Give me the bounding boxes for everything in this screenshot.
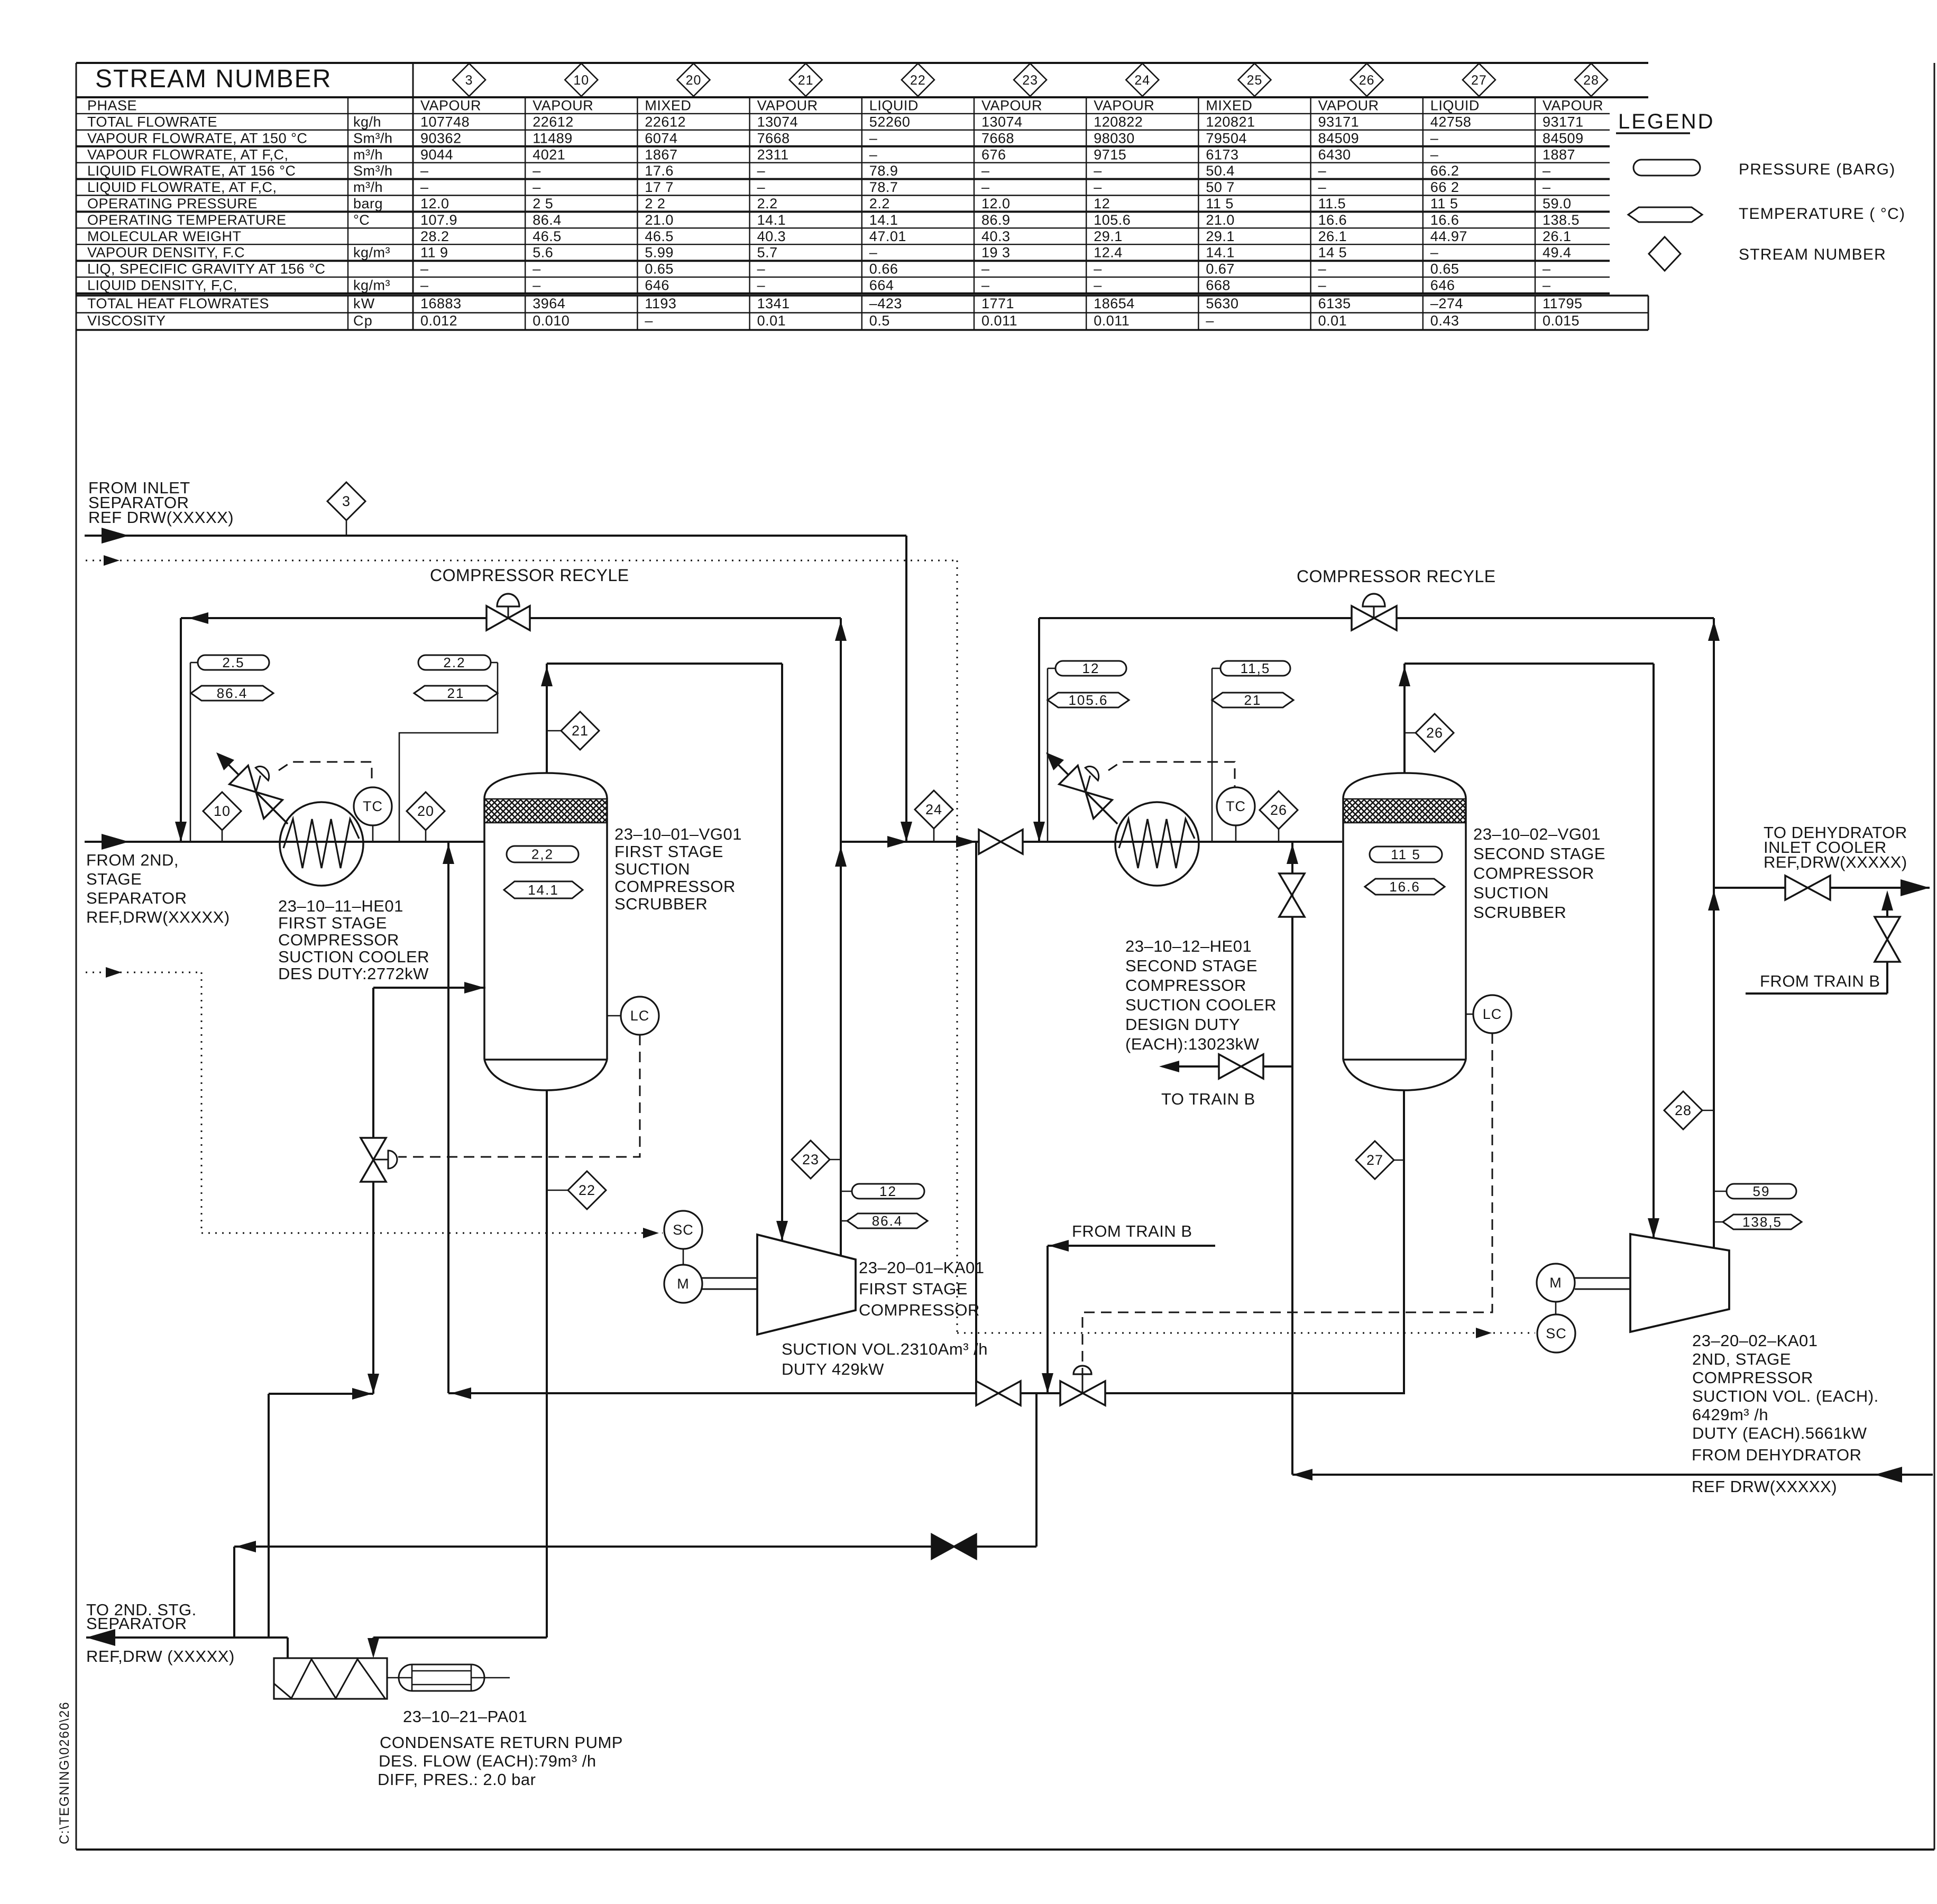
svg-text:SEPARATOR: SEPARATOR — [86, 1614, 187, 1633]
svg-text:0.010: 0.010 — [533, 313, 570, 329]
svg-text:646: 646 — [1430, 278, 1455, 293]
svg-text:TC: TC — [363, 798, 383, 814]
svg-text:–: – — [869, 146, 878, 162]
svg-text:SUCTION COOLER: SUCTION COOLER — [1125, 996, 1277, 1014]
svg-text:–: – — [1430, 245, 1439, 261]
svg-text:–: – — [757, 261, 766, 277]
svg-text:11,5: 11,5 — [1241, 660, 1271, 676]
svg-text:12.0: 12.0 — [981, 196, 1011, 211]
svg-text:20: 20 — [686, 73, 702, 88]
svg-text:16.6: 16.6 — [1389, 879, 1420, 895]
svg-text:DUTY (EACH).5661kW: DUTY (EACH).5661kW — [1692, 1424, 1867, 1442]
svg-text:98030: 98030 — [1094, 130, 1135, 146]
svg-text:22: 22 — [579, 1182, 595, 1198]
svg-text:59: 59 — [1753, 1183, 1770, 1199]
svg-text:–: – — [1543, 163, 1551, 179]
svg-text:3964: 3964 — [533, 296, 565, 311]
svg-text:kW: kW — [353, 296, 375, 311]
svg-text:66.2: 66.2 — [1430, 163, 1459, 179]
svg-text:2ND, STAGE: 2ND, STAGE — [1692, 1350, 1791, 1368]
svg-text:MIXED: MIXED — [645, 98, 691, 114]
svg-text:DUTY 429kW: DUTY 429kW — [782, 1360, 884, 1378]
svg-text:–: – — [981, 179, 990, 195]
svg-text:2 5: 2 5 — [533, 196, 553, 211]
svg-text:29.1: 29.1 — [1094, 228, 1123, 244]
svg-text:6173: 6173 — [1206, 146, 1238, 162]
svg-text:10: 10 — [573, 73, 589, 88]
svg-text:25: 25 — [1247, 73, 1263, 88]
svg-text:VAPOUR: VAPOUR — [1094, 98, 1154, 114]
svg-text:REF,DRW(XXXXX): REF,DRW(XXXXX) — [86, 908, 230, 926]
svg-text:0.5: 0.5 — [869, 313, 890, 329]
svg-text:SC: SC — [1546, 1326, 1567, 1341]
svg-text:–: – — [1318, 261, 1327, 277]
svg-text:TOTAL HEAT FLOWRATES: TOTAL HEAT FLOWRATES — [87, 296, 269, 311]
svg-text:SUCTION VOL.2310Am³ /h: SUCTION VOL.2310Am³ /h — [782, 1340, 988, 1358]
svg-text:–274: –274 — [1430, 296, 1463, 311]
svg-text:23–20–01–KA01: 23–20–01–KA01 — [859, 1258, 985, 1277]
svg-text:6429m³ /h: 6429m³ /h — [1692, 1405, 1768, 1424]
svg-text:SUCTION COOLER: SUCTION COOLER — [278, 948, 429, 966]
svg-text:–: – — [1543, 261, 1551, 277]
svg-text:CONDENSATE RETURN PUMP: CONDENSATE RETURN PUMP — [380, 1733, 623, 1752]
svg-text:SCRUBBER: SCRUBBER — [614, 895, 708, 913]
svg-text:26.1: 26.1 — [1543, 228, 1572, 244]
svg-text:24: 24 — [1134, 73, 1150, 88]
svg-text:TOTAL FLOWRATE: TOTAL FLOWRATE — [87, 114, 217, 130]
svg-text:TC: TC — [1226, 798, 1246, 814]
svg-text:21: 21 — [572, 723, 589, 739]
svg-text:46.5: 46.5 — [645, 228, 674, 244]
svg-text:MOLECULAR WEIGHT: MOLECULAR WEIGHT — [87, 228, 242, 244]
svg-text:0.65: 0.65 — [645, 261, 674, 277]
svg-text:M: M — [1549, 1275, 1562, 1291]
svg-text:TEMPERATURE ( °C): TEMPERATURE ( °C) — [1739, 205, 1905, 223]
svg-text:VAPOUR DENSITY, F.C: VAPOUR DENSITY, F.C — [87, 245, 245, 261]
svg-text:14.1: 14.1 — [869, 212, 898, 228]
svg-text:VAPOUR FLOWRATE, AT F,C,: VAPOUR FLOWRATE, AT F,C, — [87, 146, 289, 162]
svg-text:44.97: 44.97 — [1430, 228, 1467, 244]
svg-text:86.9: 86.9 — [981, 212, 1011, 228]
svg-text:–: – — [533, 163, 541, 179]
svg-text:–: – — [869, 245, 878, 261]
svg-text:barg: barg — [353, 196, 383, 211]
svg-text:21: 21 — [1244, 692, 1262, 708]
svg-text:21: 21 — [798, 73, 814, 88]
svg-text:79504: 79504 — [1206, 130, 1247, 146]
svg-text:14.1: 14.1 — [757, 212, 786, 228]
svg-text:90362: 90362 — [420, 130, 462, 146]
svg-text:FIRST STAGE: FIRST STAGE — [278, 914, 387, 932]
svg-text:–: – — [981, 278, 990, 293]
svg-text:COMPRESSOR: COMPRESSOR — [1692, 1368, 1813, 1387]
svg-text:93171: 93171 — [1543, 114, 1584, 130]
svg-text:OPERATING PRESSURE: OPERATING PRESSURE — [87, 196, 258, 211]
svg-text:2 2: 2 2 — [645, 196, 665, 211]
svg-text:7668: 7668 — [981, 130, 1014, 146]
svg-text:21.0: 21.0 — [1206, 212, 1235, 228]
svg-text:–423: –423 — [869, 296, 902, 311]
svg-text:OPERATING TEMPERATURE: OPERATING TEMPERATURE — [87, 212, 287, 228]
svg-text:Cp: Cp — [353, 313, 373, 329]
svg-text:kg/m³: kg/m³ — [353, 245, 390, 261]
svg-text:VAPOUR: VAPOUR — [1318, 98, 1379, 114]
svg-text:–: – — [1206, 313, 1214, 329]
svg-text:Sm³/h: Sm³/h — [353, 163, 393, 179]
svg-text:11.5: 11.5 — [1318, 196, 1346, 211]
svg-text:13074: 13074 — [757, 114, 798, 130]
svg-text:138,5: 138,5 — [1742, 1214, 1782, 1230]
svg-text:–: – — [869, 130, 878, 146]
svg-text:78.9: 78.9 — [869, 163, 898, 179]
svg-text:VAPOUR: VAPOUR — [533, 98, 593, 114]
svg-text:22612: 22612 — [645, 114, 686, 130]
svg-text:86.4: 86.4 — [533, 212, 562, 228]
svg-text:84509: 84509 — [1318, 130, 1360, 146]
svg-text:664: 664 — [869, 278, 894, 293]
svg-text:6430: 6430 — [1318, 146, 1351, 162]
svg-text:27: 27 — [1471, 73, 1487, 88]
svg-text:86.4: 86.4 — [872, 1213, 903, 1229]
svg-text:86.4: 86.4 — [217, 685, 248, 701]
svg-text:STAGE: STAGE — [86, 870, 142, 888]
svg-text:–: – — [1094, 261, 1102, 277]
svg-text:40.3: 40.3 — [757, 228, 786, 244]
svg-text:REF,DRW (XXXXX): REF,DRW (XXXXX) — [86, 1647, 235, 1666]
svg-text:14 5: 14 5 — [1318, 245, 1347, 261]
svg-text:107748: 107748 — [420, 114, 470, 130]
svg-text:2.5: 2.5 — [222, 655, 244, 670]
svg-text:VAPOUR: VAPOUR — [981, 98, 1042, 114]
svg-text:9715: 9715 — [1094, 146, 1126, 162]
svg-text:18654: 18654 — [1094, 296, 1135, 311]
svg-text:9044: 9044 — [420, 146, 453, 162]
svg-text:LIQUID FLOWRATE, AT 156 °C: LIQUID FLOWRATE, AT 156 °C — [87, 163, 296, 179]
svg-text:FROM 2ND,: FROM 2ND, — [86, 851, 179, 869]
svg-text:12.0: 12.0 — [420, 196, 449, 211]
svg-text:–: – — [533, 278, 541, 293]
svg-text:2.2: 2.2 — [757, 196, 778, 211]
svg-text:50 7: 50 7 — [1206, 179, 1235, 195]
svg-text:107.9: 107.9 — [420, 212, 457, 228]
svg-text:26.1: 26.1 — [1318, 228, 1347, 244]
svg-text:24: 24 — [925, 802, 942, 817]
svg-text:27: 27 — [1366, 1152, 1383, 1168]
svg-text:MIXED: MIXED — [1206, 98, 1252, 114]
svg-text:0.66: 0.66 — [869, 261, 898, 277]
svg-text:–: – — [1543, 179, 1551, 195]
svg-text:23–10–01–VG01: 23–10–01–VG01 — [614, 825, 742, 843]
svg-text:DIFF, PRES.: 2.0 bar: DIFF, PRES.: 2.0 bar — [378, 1770, 536, 1789]
svg-text:138.5: 138.5 — [1543, 212, 1580, 228]
svg-text:17 7: 17 7 — [645, 179, 674, 195]
svg-text:26: 26 — [1426, 725, 1443, 741]
svg-text:0.01: 0.01 — [1318, 313, 1347, 329]
svg-text:–: – — [757, 179, 766, 195]
svg-text:22612: 22612 — [533, 114, 574, 130]
svg-text:40.3: 40.3 — [981, 228, 1011, 244]
svg-text:SECOND STAGE: SECOND STAGE — [1125, 956, 1257, 975]
svg-text:120822: 120822 — [1094, 114, 1143, 130]
svg-text:DES. FLOW (EACH):79m³ /h: DES. FLOW (EACH):79m³ /h — [379, 1752, 596, 1770]
svg-text:m³/h: m³/h — [353, 179, 383, 195]
svg-text:LIQUID: LIQUID — [1430, 98, 1480, 114]
svg-text:3: 3 — [342, 493, 351, 509]
svg-text:49.4: 49.4 — [1543, 245, 1572, 261]
svg-text:(EACH):13023kW: (EACH):13023kW — [1125, 1035, 1260, 1053]
svg-text:VISCOSITY: VISCOSITY — [87, 313, 166, 329]
svg-text:Sm³/h: Sm³/h — [353, 130, 393, 146]
svg-text:VAPOUR: VAPOUR — [1543, 98, 1603, 114]
svg-text:2311: 2311 — [757, 146, 789, 162]
svg-text:–: – — [420, 278, 429, 293]
svg-text:–: – — [420, 179, 429, 195]
svg-text:105.6: 105.6 — [1068, 692, 1108, 708]
svg-text:12: 12 — [879, 1183, 897, 1199]
svg-text:23–10–02–VG01: 23–10–02–VG01 — [1473, 825, 1601, 843]
svg-text:PHASE: PHASE — [87, 98, 137, 114]
svg-text:–: – — [757, 163, 766, 179]
svg-text:FROM DEHYDRATOR: FROM DEHYDRATOR — [1692, 1446, 1862, 1464]
svg-text:0.012: 0.012 — [420, 313, 457, 329]
svg-text:6074: 6074 — [645, 130, 677, 146]
svg-text:VAPOUR: VAPOUR — [420, 98, 481, 114]
svg-text:11 9: 11 9 — [420, 245, 448, 261]
svg-text:0.67: 0.67 — [1206, 261, 1235, 277]
svg-text:C:\TEGNING\0260\26: C:\TEGNING\0260\26 — [57, 1701, 72, 1844]
svg-text:COMPRESSOR: COMPRESSOR — [1125, 976, 1246, 995]
svg-text:COMPRESSOR RECYLE: COMPRESSOR RECYLE — [430, 566, 629, 585]
svg-text:2.2: 2.2 — [869, 196, 890, 211]
svg-text:29.1: 29.1 — [1206, 228, 1235, 244]
svg-text:–: – — [1318, 179, 1327, 195]
svg-text:–: – — [533, 179, 541, 195]
svg-text:19 3: 19 3 — [981, 245, 1011, 261]
svg-text:–: – — [981, 163, 990, 179]
svg-text:23: 23 — [802, 1152, 819, 1167]
svg-text:–: – — [757, 278, 766, 293]
svg-text:5.99: 5.99 — [645, 245, 674, 261]
svg-text:105.6: 105.6 — [1094, 212, 1131, 228]
svg-text:0.011: 0.011 — [981, 313, 1017, 329]
svg-text:REF DRW(XXXXX): REF DRW(XXXXX) — [1692, 1477, 1837, 1496]
svg-text:59.0: 59.0 — [1543, 196, 1572, 211]
svg-text:50.4: 50.4 — [1206, 163, 1235, 179]
svg-text:LIQUID: LIQUID — [869, 98, 919, 114]
svg-text:COMPRESSOR: COMPRESSOR — [278, 931, 399, 949]
svg-text:–: – — [1094, 179, 1102, 195]
svg-text:VAPOUR FLOWRATE, AT 150 °C: VAPOUR FLOWRATE, AT 150 °C — [87, 130, 307, 146]
svg-text:–: – — [1543, 278, 1551, 293]
svg-text:14.1: 14.1 — [528, 882, 559, 898]
svg-text:0.43: 0.43 — [1430, 313, 1459, 329]
svg-text:5.6: 5.6 — [533, 245, 553, 261]
svg-text:21.0: 21.0 — [645, 212, 674, 228]
svg-text:0.65: 0.65 — [1430, 261, 1459, 277]
svg-text:2,2: 2,2 — [531, 847, 554, 862]
svg-text:kg/h: kg/h — [353, 114, 381, 130]
svg-text:11 5: 11 5 — [1206, 196, 1234, 211]
svg-text:23–10–11–HE01: 23–10–11–HE01 — [278, 897, 403, 915]
svg-text:–: – — [645, 313, 653, 329]
svg-text:–: – — [1094, 163, 1102, 179]
svg-text:1193: 1193 — [645, 296, 676, 311]
svg-text:–: – — [533, 261, 541, 277]
svg-text:3: 3 — [465, 73, 473, 88]
svg-text:kg/m³: kg/m³ — [353, 278, 390, 293]
svg-text:1341: 1341 — [757, 296, 790, 311]
svg-text:17.6: 17.6 — [645, 163, 674, 179]
svg-text:2.2: 2.2 — [443, 655, 465, 670]
svg-text:668: 668 — [1206, 278, 1231, 293]
svg-text:28: 28 — [1675, 1102, 1692, 1118]
svg-text:°C: °C — [353, 212, 370, 228]
svg-text:12: 12 — [1082, 660, 1100, 676]
svg-text:5630: 5630 — [1206, 296, 1238, 311]
svg-text:TO TRAIN B: TO TRAIN B — [1161, 1090, 1255, 1108]
svg-text:–: – — [981, 261, 990, 277]
svg-text:DESIGN DUTY: DESIGN DUTY — [1125, 1015, 1240, 1034]
svg-text:23: 23 — [1022, 73, 1038, 88]
svg-text:FIRST STAGE: FIRST STAGE — [614, 842, 723, 861]
svg-text:REF DRW(XXXXX): REF DRW(XXXXX) — [88, 508, 234, 527]
svg-text:LC: LC — [1483, 1006, 1502, 1022]
svg-text:28: 28 — [1583, 73, 1599, 88]
svg-text:1887: 1887 — [1543, 146, 1575, 162]
svg-text:11 5: 11 5 — [1430, 196, 1458, 211]
svg-text:PRESSURE (BARG): PRESSURE (BARG) — [1739, 161, 1895, 178]
svg-text:m³/h: m³/h — [353, 146, 383, 162]
svg-text:1771: 1771 — [981, 296, 1014, 311]
svg-text:46.5: 46.5 — [533, 228, 562, 244]
svg-text:1867: 1867 — [645, 146, 677, 162]
svg-text:23–10–21–PA01: 23–10–21–PA01 — [403, 1707, 527, 1726]
svg-text:28.2: 28.2 — [420, 228, 449, 244]
svg-text:–: – — [1430, 130, 1439, 146]
svg-text:16.6: 16.6 — [1318, 212, 1347, 228]
svg-text:–: – — [1318, 278, 1327, 293]
svg-text:FROM TRAIN B: FROM TRAIN B — [1072, 1222, 1192, 1240]
svg-text:LEGEND: LEGEND — [1618, 110, 1715, 133]
svg-text:646: 646 — [645, 278, 669, 293]
svg-text:LC: LC — [630, 1008, 650, 1024]
svg-text:LIQ, SPECIFIC GRAVITY AT 156 °: LIQ, SPECIFIC GRAVITY AT 156 °C — [87, 261, 325, 277]
svg-text:120821: 120821 — [1206, 114, 1255, 130]
svg-text:4021: 4021 — [533, 146, 565, 162]
svg-text:11 5: 11 5 — [1391, 847, 1421, 862]
svg-text:COMPRESSOR: COMPRESSOR — [614, 877, 736, 896]
svg-text:26: 26 — [1270, 802, 1287, 818]
svg-text:VAPOUR: VAPOUR — [757, 98, 818, 114]
svg-text:84509: 84509 — [1543, 130, 1584, 146]
svg-text:–: – — [1430, 146, 1439, 162]
svg-text:SEPARATOR: SEPARATOR — [86, 889, 187, 907]
svg-text:–: – — [420, 163, 429, 179]
svg-text:COMPRESSOR: COMPRESSOR — [859, 1301, 980, 1319]
svg-text:20: 20 — [417, 803, 434, 819]
svg-text:23–10–12–HE01: 23–10–12–HE01 — [1125, 937, 1252, 955]
svg-text:0.01: 0.01 — [757, 313, 786, 329]
svg-text:LIQUID FLOWRATE, AT F,C,: LIQUID FLOWRATE, AT F,C, — [87, 179, 277, 195]
svg-text:13074: 13074 — [981, 114, 1023, 130]
svg-text:FROM TRAIN B: FROM TRAIN B — [1760, 972, 1880, 990]
svg-text:11489: 11489 — [533, 130, 573, 146]
svg-text:16.6: 16.6 — [1430, 212, 1459, 228]
svg-text:–: – — [420, 261, 429, 277]
svg-text:COMPRESSOR: COMPRESSOR — [1473, 864, 1594, 882]
svg-text:23–20–02–KA01: 23–20–02–KA01 — [1692, 1331, 1818, 1350]
svg-text:21: 21 — [447, 685, 465, 701]
svg-text:REF,DRW(XXXXX): REF,DRW(XXXXX) — [1764, 853, 1907, 871]
svg-text:0.015: 0.015 — [1543, 313, 1580, 329]
svg-text:676: 676 — [981, 146, 1006, 162]
svg-text:11795: 11795 — [1543, 296, 1583, 311]
svg-text:7668: 7668 — [757, 130, 790, 146]
svg-text:10: 10 — [214, 803, 231, 819]
svg-text:5.7: 5.7 — [757, 245, 778, 261]
svg-text:22: 22 — [910, 73, 926, 88]
svg-text:–: – — [1318, 163, 1327, 179]
svg-text:42758: 42758 — [1430, 114, 1472, 130]
svg-text:COMPRESSOR RECYLE: COMPRESSOR RECYLE — [1297, 567, 1496, 586]
svg-text:0.011: 0.011 — [1094, 313, 1130, 329]
svg-text:FIRST STAGE: FIRST STAGE — [859, 1280, 968, 1298]
svg-text:LIQUID DENSITY, F,C,: LIQUID DENSITY, F,C, — [87, 278, 237, 293]
svg-text:14.1: 14.1 — [1206, 245, 1235, 261]
svg-text:SC: SC — [673, 1222, 694, 1238]
svg-text:78.7: 78.7 — [869, 179, 898, 195]
svg-text:SUCTION: SUCTION — [1473, 884, 1549, 902]
svg-text:26: 26 — [1359, 73, 1375, 88]
svg-text:12.4: 12.4 — [1094, 245, 1123, 261]
svg-text:SECOND STAGE: SECOND STAGE — [1473, 844, 1605, 863]
svg-text:M: M — [677, 1276, 690, 1292]
svg-text:SCRUBBER: SCRUBBER — [1473, 903, 1566, 922]
svg-text:SUCTION VOL. (EACH).: SUCTION VOL. (EACH). — [1692, 1387, 1879, 1405]
svg-text:16883: 16883 — [420, 296, 462, 311]
svg-text:52260: 52260 — [869, 114, 911, 130]
svg-text:SUCTION: SUCTION — [614, 860, 690, 878]
svg-text:47.01: 47.01 — [869, 228, 906, 244]
svg-text:12: 12 — [1094, 196, 1110, 211]
svg-text:STREAM NUMBER: STREAM NUMBER — [1739, 246, 1886, 263]
svg-text:6135: 6135 — [1318, 296, 1351, 311]
svg-text:93171: 93171 — [1318, 114, 1360, 130]
svg-text:STREAM NUMBER: STREAM NUMBER — [95, 65, 332, 93]
svg-text:–: – — [1094, 278, 1102, 293]
svg-text:66 2: 66 2 — [1430, 179, 1459, 195]
svg-text:DES DUTY:2772kW: DES DUTY:2772kW — [278, 964, 429, 983]
